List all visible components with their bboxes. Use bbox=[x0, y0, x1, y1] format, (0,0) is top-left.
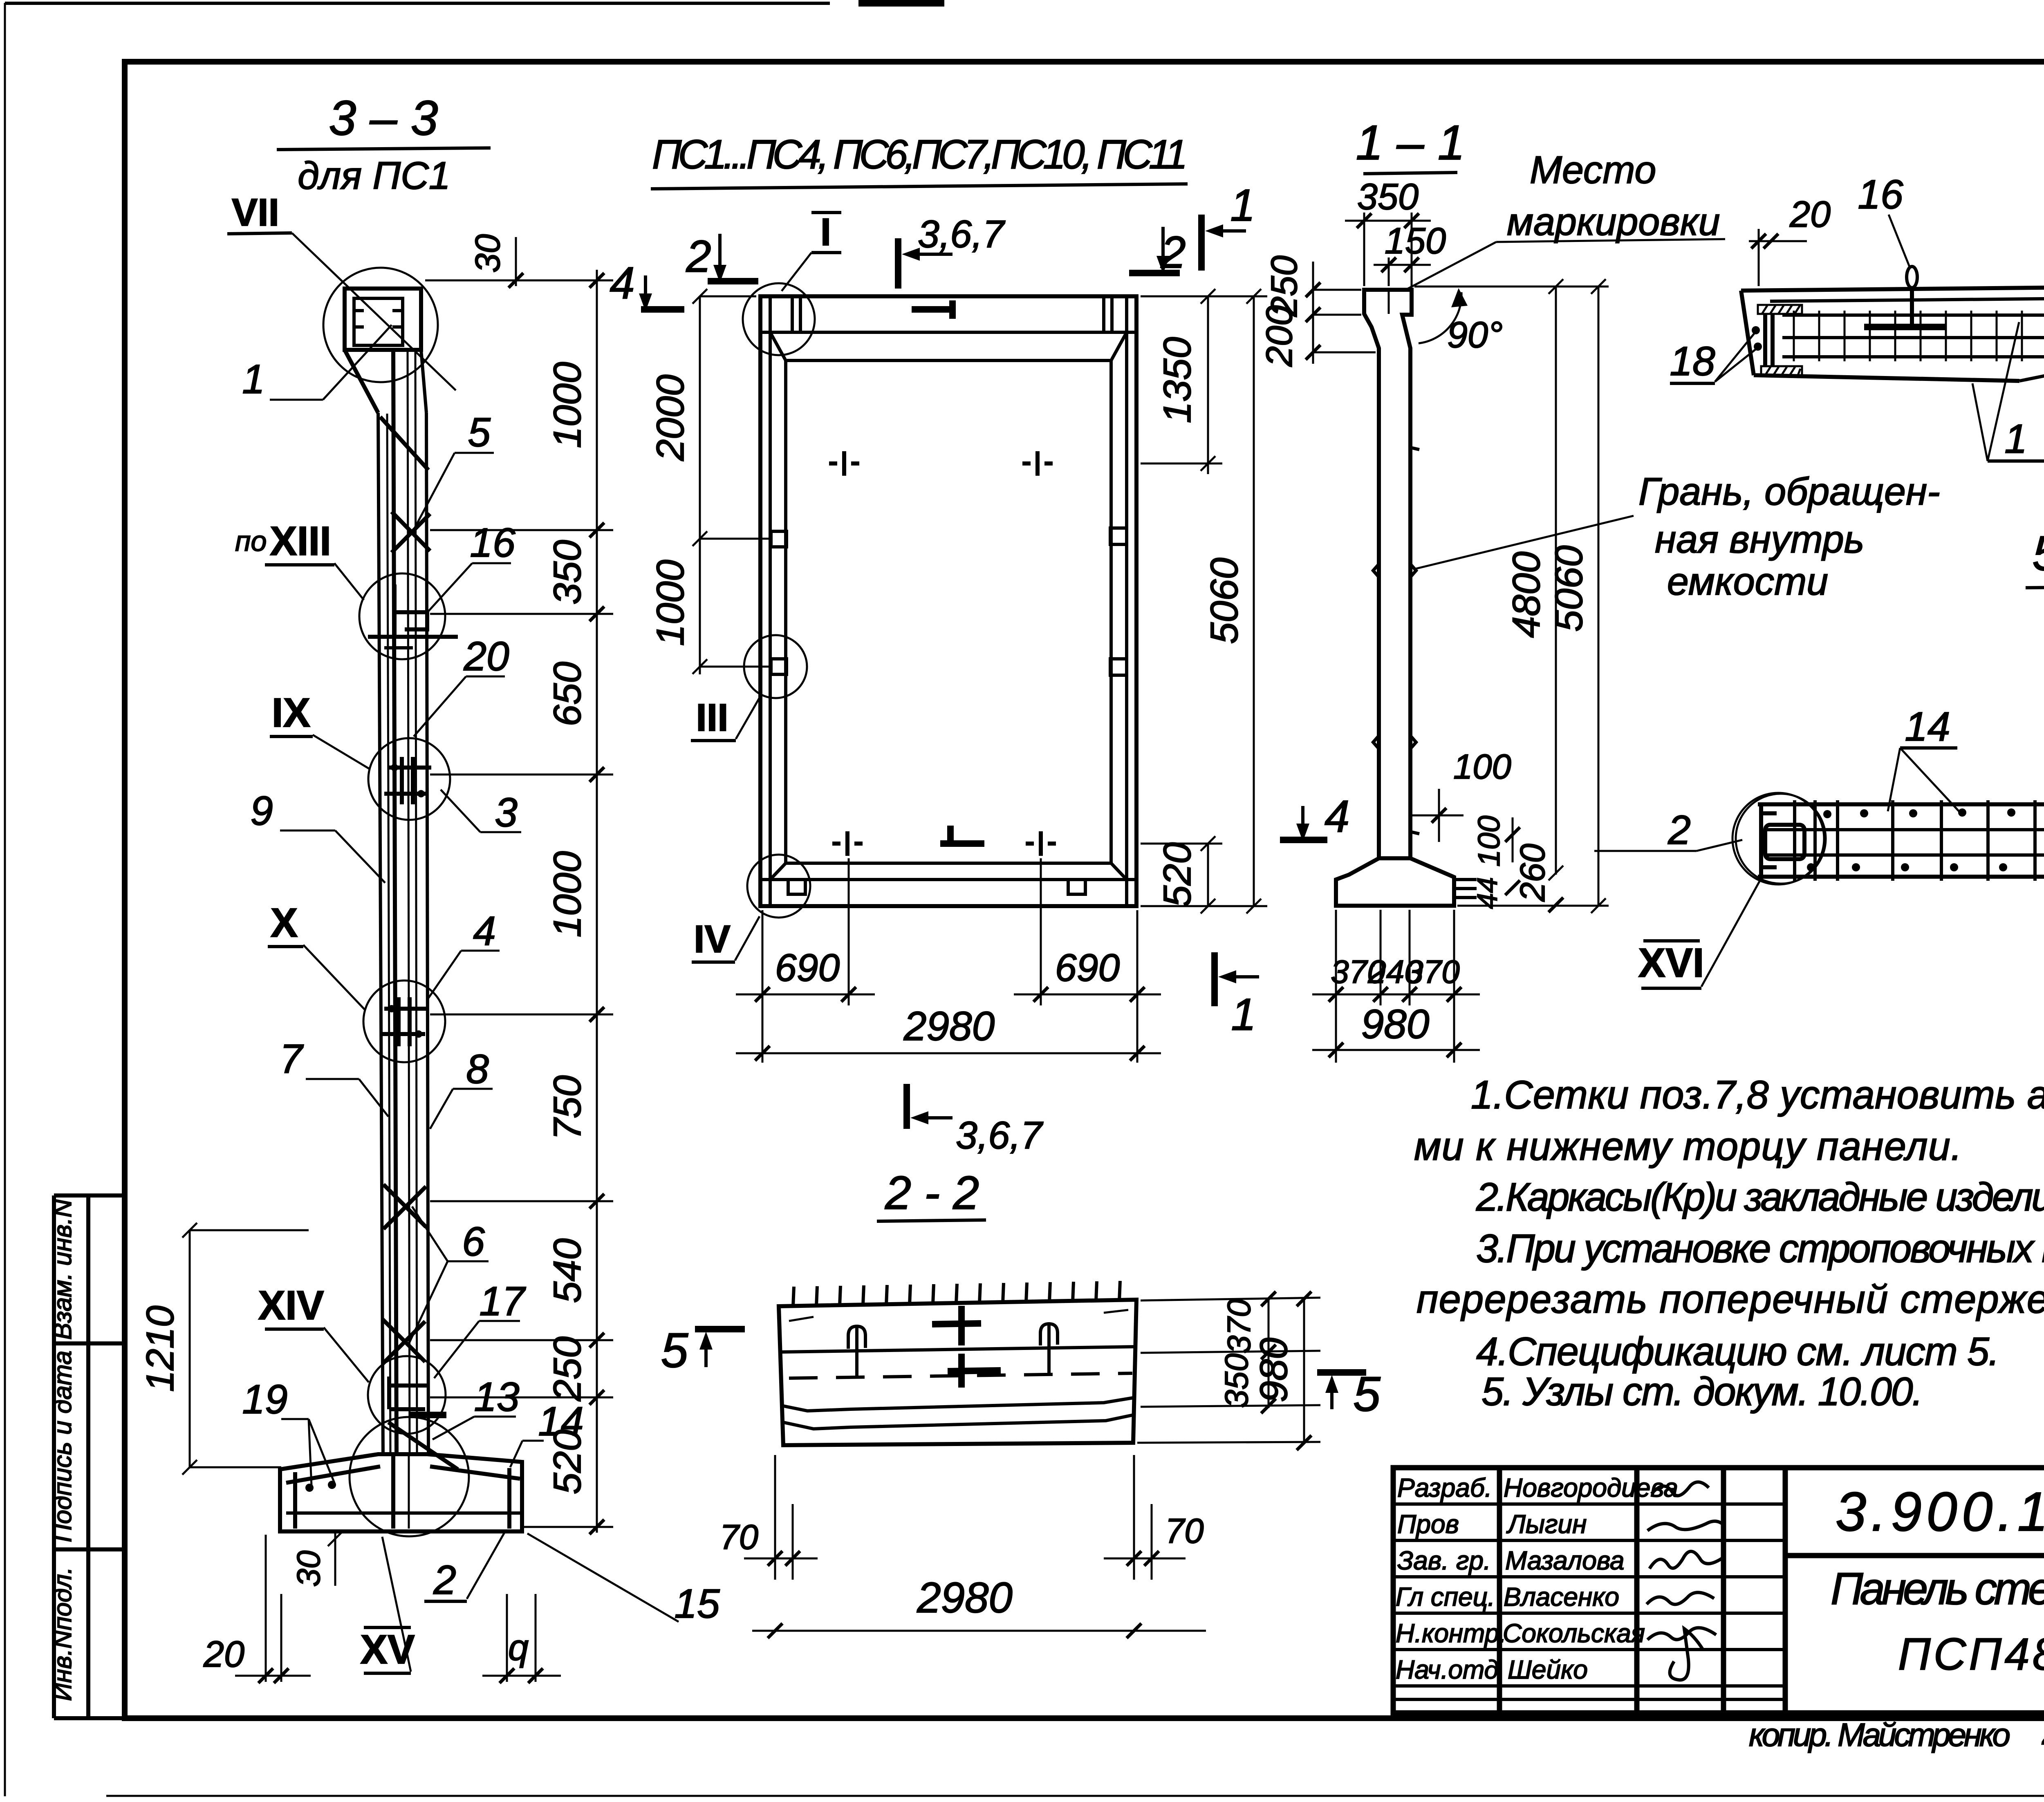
svg-text:1350: 1350 bbox=[1156, 337, 1199, 423]
label III bbox=[691, 695, 761, 741]
svg-text:Власенко: Власенко bbox=[1504, 1582, 1619, 1612]
label 15 bottom bbox=[527, 1533, 720, 1627]
section mark 1 top right bbox=[1201, 180, 1255, 271]
svg-text:5060: 5060 bbox=[1203, 557, 1246, 644]
svg-text:20: 20 bbox=[463, 633, 509, 679]
svg-text:15: 15 bbox=[674, 1581, 720, 1627]
plan dim 2980 bbox=[736, 1003, 1161, 1061]
label грань обращенная bbox=[1415, 470, 1940, 603]
svg-text:520: 520 bbox=[546, 1430, 589, 1495]
title block name bbox=[1831, 1564, 2044, 1679]
svg-text:1: 1 bbox=[1231, 989, 1256, 1040]
svg-text:5: 5 bbox=[661, 1323, 689, 1378]
section mark 1 bottom right bbox=[1215, 952, 1259, 1040]
plan wall key left 1 bbox=[771, 531, 787, 547]
label 1 view44 bbox=[1972, 322, 2044, 462]
label 20 bbox=[414, 633, 509, 736]
svg-text:1000: 1000 bbox=[649, 560, 692, 646]
svg-text:260: 260 bbox=[1513, 844, 1552, 902]
svg-text:5060: 5060 bbox=[1547, 545, 1591, 632]
svg-text:350: 350 bbox=[1218, 1353, 1255, 1408]
section mark 2 top right bbox=[1129, 227, 1186, 278]
sheet bottom edge bbox=[106, 1795, 2044, 1797]
svg-text:90°: 90° bbox=[1447, 315, 1503, 356]
svg-text:ми к нижнему торцу панели.: ми к нижнему торцу панели. bbox=[1414, 1124, 1962, 1169]
label XIV bbox=[258, 1283, 369, 1382]
view 1-1 title bbox=[1356, 115, 1465, 174]
svg-text:6: 6 bbox=[462, 1219, 485, 1265]
svg-text:980: 980 bbox=[1252, 1338, 1295, 1403]
dim 350 bbox=[1345, 177, 1431, 286]
panel 2-2 loops bbox=[848, 1324, 1058, 1377]
section mark 5 left bbox=[661, 1323, 745, 1378]
dim 980 view22 bbox=[1137, 1292, 1320, 1450]
lifting loop 16 bbox=[1907, 266, 1917, 288]
dim 44 bbox=[1471, 877, 1520, 909]
panel 2-2 comb ticks bbox=[793, 1281, 1120, 1307]
svg-text:44: 44 bbox=[1471, 877, 1503, 909]
label 6 bbox=[408, 1207, 489, 1345]
label 19 bbox=[242, 1377, 334, 1486]
plan dim 690 left bbox=[736, 858, 875, 1063]
svg-text:Взам. инв.N: Взам. инв.N bbox=[49, 1199, 77, 1340]
column 1-1 notches bbox=[1373, 448, 1419, 834]
plan wall key right 1 bbox=[1110, 528, 1127, 544]
svg-text:2: 2 bbox=[1667, 807, 1691, 853]
dim 2980 view22 bbox=[752, 1574, 1206, 1638]
footing 3-3 bbox=[280, 1422, 522, 1531]
dim 30 footing bbox=[290, 1531, 343, 1587]
svg-text:XIV: XIV bbox=[258, 1283, 324, 1328]
plan cross bottom left bbox=[832, 831, 863, 856]
svg-text:520: 520 bbox=[1156, 842, 1199, 907]
column 3-3 body edges bbox=[378, 351, 428, 1456]
svg-text:2: 2 bbox=[433, 1557, 456, 1603]
svg-text:1000: 1000 bbox=[546, 362, 589, 448]
angle 90 bbox=[1419, 288, 1503, 356]
plan view title bbox=[651, 132, 1188, 189]
label по XIII bbox=[235, 518, 364, 600]
plan dim 2000 bbox=[649, 289, 769, 674]
plan dim 690 right bbox=[1014, 858, 1161, 1063]
label 16 bbox=[1858, 172, 1910, 268]
label 1 bbox=[242, 325, 392, 402]
svg-text:30: 30 bbox=[290, 1551, 327, 1587]
dim 260 bbox=[1513, 844, 1563, 912]
svg-text:Панель стеновая: Панель стеновая bbox=[1831, 1564, 2044, 1614]
svg-text:Сокольская: Сокольская bbox=[1503, 1618, 1645, 1648]
column 3-3 X brace 2 bbox=[383, 1184, 426, 1229]
plan detail circle I bbox=[743, 283, 815, 355]
label 5 bbox=[413, 410, 494, 531]
plan wall key bottom right bbox=[1068, 880, 1085, 894]
column 3-3 X brace 3 bbox=[383, 1319, 425, 1364]
svg-text:1: 1 bbox=[1230, 180, 1255, 231]
svg-text:Инв.Nподл.: Инв.Nподл. bbox=[49, 1567, 77, 1701]
section mark 2 top left bbox=[686, 231, 758, 283]
section mark 4 top bbox=[610, 258, 684, 311]
plan anchor mark top center bbox=[912, 300, 953, 319]
column 3-3 X brace 1 bbox=[392, 512, 430, 553]
panel 4-4 end dots left bbox=[1752, 326, 1762, 351]
svg-text:150: 150 bbox=[1385, 221, 1446, 262]
svg-text:2.Каркасы(Кр)и закладные издел: 2.Каркасы(Кр)и закладные изделия(МН)прив… bbox=[1476, 1175, 2044, 1219]
label 4 bbox=[428, 908, 500, 998]
dim 20 bbox=[1749, 194, 1831, 286]
svg-text:Пров: Пров bbox=[1397, 1509, 1459, 1539]
svg-text:70: 70 bbox=[719, 1518, 758, 1557]
svg-text:2000: 2000 bbox=[649, 374, 692, 461]
dim 30 top bbox=[468, 234, 523, 288]
label 9 bbox=[250, 788, 385, 883]
svg-text:I: I bbox=[820, 210, 831, 254]
title block names bbox=[1503, 1473, 1678, 1684]
plan detail circle IV bbox=[747, 855, 810, 918]
dim 370 350 right bbox=[1141, 1292, 1320, 1413]
dim q bottom bbox=[482, 1594, 561, 1683]
label 13 bbox=[433, 1374, 520, 1439]
svg-text:XVI: XVI bbox=[1638, 940, 1704, 986]
svg-text:Место: Место bbox=[1530, 148, 1656, 192]
label 2 bottom bbox=[424, 1532, 505, 1603]
svg-text:3: 3 bbox=[495, 790, 518, 835]
svg-text:5 – 5: 5 – 5 bbox=[2033, 526, 2044, 581]
view 5-5 title bbox=[2026, 526, 2044, 588]
svg-text:Зав. гр.: Зав. гр. bbox=[1397, 1546, 1491, 1575]
label XVI bbox=[1638, 875, 1763, 988]
svg-text:20: 20 bbox=[1789, 194, 1831, 235]
detail circle XV bbox=[350, 1417, 469, 1536]
svg-text:Н.контр.: Н.контр. bbox=[1396, 1618, 1506, 1648]
svg-text:17: 17 bbox=[479, 1278, 526, 1324]
svg-text:Нач.отд: Нач.отд bbox=[1396, 1655, 1499, 1684]
plan dim 1350 bbox=[1141, 289, 1222, 474]
svg-text:емкости: емкости bbox=[1667, 560, 1828, 603]
title block job titles bbox=[1396, 1473, 1506, 1684]
svg-text:690: 690 bbox=[775, 946, 840, 989]
dim 5060 right bbox=[1457, 279, 1609, 913]
svg-text:350: 350 bbox=[546, 540, 589, 605]
dim 4800 bbox=[1414, 279, 1609, 880]
dim 370 240 370 bbox=[1312, 910, 1480, 1063]
svg-text:18: 18 bbox=[1670, 338, 1715, 384]
svg-text:1.Сетки поз.7,8 установить анк: 1.Сетки поз.7,8 установить анкерующими с… bbox=[1471, 1072, 2044, 1117]
svg-text:2980: 2980 bbox=[917, 1574, 1013, 1622]
svg-text:24399-01: 24399-01 bbox=[2042, 1706, 2044, 1754]
svg-text:Гл спец.: Гл спец. bbox=[1396, 1582, 1495, 1612]
panel 4-4 end plates hatched bbox=[1758, 305, 1802, 375]
svg-text:20: 20 bbox=[203, 1634, 244, 1675]
panel 2-2 outline bbox=[779, 1300, 1136, 1445]
svg-text:19: 19 bbox=[242, 1377, 287, 1422]
panel 2-2 anchor marks bbox=[932, 1306, 1001, 1388]
svg-text:1210: 1210 bbox=[139, 1305, 182, 1392]
sheet top edge mark bbox=[858, 0, 944, 7]
title block outer bbox=[1393, 1468, 2044, 1713]
sheet left edge bbox=[4, 3, 6, 1796]
detail circle XVI bbox=[1736, 794, 1826, 884]
label 17 bbox=[434, 1278, 526, 1378]
svg-text:X: X bbox=[271, 900, 298, 946]
label IV bbox=[692, 916, 760, 962]
plan wall key bottom left bbox=[788, 880, 805, 894]
svg-text:2980: 2980 bbox=[903, 1003, 995, 1049]
column 3-3 brace diagonal bbox=[380, 417, 428, 470]
svg-text:ПС1...ПС4, ПС6,ПС7,ПС10, ПС11: ПС1...ПС4, ПС6,ПС7,ПС10, ПС11 bbox=[652, 132, 1188, 177]
plan dim 5060 bbox=[1141, 289, 1267, 913]
detail circle VII bbox=[323, 268, 438, 382]
svg-text:ная внутрь: ная внутрь bbox=[1655, 518, 1864, 561]
svg-text:Лыгин: Лыгин bbox=[1506, 1509, 1587, 1539]
panel 2-2 inner lines bbox=[780, 1310, 1135, 1429]
section mark 4 right bbox=[1280, 791, 1349, 842]
svg-text:маркировки: маркировки bbox=[1507, 200, 1720, 244]
left margin stamp boxes bbox=[54, 1195, 125, 1718]
label 14 view55 left bbox=[1888, 704, 1959, 811]
svg-text:III: III bbox=[696, 696, 728, 739]
svg-text:q: q bbox=[508, 1627, 529, 1668]
dim 100 upper bbox=[1410, 748, 1511, 842]
mesh 5-5 left bar bbox=[1758, 800, 2044, 881]
plan dim 520 bbox=[1141, 836, 1222, 913]
svg-text:7: 7 bbox=[280, 1036, 304, 1082]
plan cross top right bbox=[1022, 451, 1053, 476]
section mark 5 right bbox=[1317, 1367, 1381, 1421]
svg-text:Разраб.: Разраб. bbox=[1397, 1473, 1492, 1502]
svg-text:перерезать поперечный стерже: перерезать поперечный стержень сетки. bbox=[1416, 1277, 2044, 1321]
dim chain 3-3 right bbox=[425, 270, 613, 1534]
svg-text:XIII: XIII bbox=[270, 518, 331, 564]
column 1-1 outline bbox=[1364, 290, 1412, 858]
label XV bbox=[360, 1537, 415, 1673]
svg-text:ПСП48: ПСП48 bbox=[1898, 1629, 2044, 1679]
svg-text:9: 9 bbox=[250, 788, 273, 834]
svg-text:4800: 4800 bbox=[1505, 551, 1548, 638]
mesh 4-4 bbox=[1782, 287, 2044, 361]
view 2-2 title bbox=[877, 1167, 986, 1221]
dim 250 200 left bbox=[1259, 255, 1376, 367]
svg-text:копир. Майстренко: копир. Майстренко bbox=[1749, 1717, 2010, 1753]
view 3-3 title bbox=[277, 91, 491, 197]
label место маркировки bbox=[1403, 148, 1725, 291]
svg-text:3 – 3: 3 – 3 bbox=[329, 91, 438, 146]
plan wall lines bbox=[760, 296, 1136, 906]
dim 100 lower bbox=[1472, 815, 1520, 866]
svg-text:2: 2 bbox=[686, 231, 711, 282]
svg-text:для ПС1: для ПС1 bbox=[298, 154, 450, 197]
svg-text:16: 16 bbox=[1858, 172, 1903, 217]
dim 150 bbox=[1374, 221, 1446, 286]
svg-text:Шейко: Шейко bbox=[1508, 1655, 1588, 1684]
svg-text:2 - 2: 2 - 2 bbox=[885, 1167, 979, 1219]
svg-text:5: 5 bbox=[468, 410, 491, 455]
plan dim 1000 bbox=[649, 560, 769, 674]
label 14 bbox=[510, 1399, 584, 1467]
label VII bbox=[227, 191, 456, 390]
plan anchor mark bottom center bbox=[940, 826, 984, 844]
svg-text:Новгородиева: Новгородиева bbox=[1504, 1473, 1678, 1502]
svg-text:1000: 1000 bbox=[546, 851, 589, 938]
svg-text:Подпись и дата: Подпись и дата bbox=[49, 1351, 77, 1542]
svg-text:540: 540 bbox=[546, 1238, 589, 1303]
title block signatures bbox=[1647, 1482, 1723, 1680]
dim 980 bbox=[1312, 1001, 1480, 1057]
title block row lines bbox=[1393, 1504, 2044, 1699]
svg-text:3.При установке строповочных п: 3.При установке строповочных петель допу… bbox=[1476, 1226, 2044, 1271]
detail circle XIII bbox=[359, 573, 458, 659]
svg-text:690: 690 bbox=[1055, 946, 1120, 989]
plan wall key right 2 bbox=[1110, 659, 1127, 675]
svg-text:14: 14 bbox=[1905, 704, 1950, 750]
plan detail circle III bbox=[744, 635, 807, 698]
svg-text:1: 1 bbox=[242, 356, 265, 402]
dim 20 bottom bbox=[203, 1535, 311, 1683]
column 3-3 cap bbox=[345, 289, 426, 413]
dim 1210 left bbox=[139, 1223, 309, 1475]
label 8 bbox=[430, 1046, 493, 1129]
svg-text:70: 70 bbox=[1165, 1512, 1204, 1551]
detail circle IX bbox=[368, 738, 450, 820]
plan wall key left 2 bbox=[771, 659, 787, 674]
dim 70 left view22 bbox=[719, 1455, 818, 1580]
detail circle X bbox=[363, 980, 445, 1062]
label X bbox=[268, 900, 365, 1010]
svg-text:3,6,7: 3,6,7 bbox=[918, 213, 1005, 256]
svg-text:1 – 1: 1 – 1 bbox=[1356, 115, 1465, 170]
svg-text:4: 4 bbox=[1325, 791, 1349, 842]
svg-text:350: 350 bbox=[1357, 177, 1419, 217]
svg-text:8: 8 bbox=[466, 1046, 489, 1092]
svg-text:750: 750 bbox=[546, 1075, 589, 1140]
notes text bbox=[1414, 1072, 2044, 1414]
detail circle XIV bbox=[368, 1356, 446, 1434]
plan outer rect bbox=[760, 296, 1136, 906]
svg-text:1: 1 bbox=[2004, 416, 2027, 462]
section mark 367 bottom bbox=[907, 1084, 1043, 1157]
label 18 left bbox=[1670, 333, 1757, 384]
svg-text:Мазалова: Мазалова bbox=[1505, 1546, 1624, 1575]
sheet top edge bbox=[5, 2, 830, 5]
label 3 bbox=[441, 790, 521, 835]
svg-text:100: 100 bbox=[1453, 748, 1511, 786]
svg-text:5. Узлы ст. докум. 10.00.: 5. Узлы ст. докум. 10.00. bbox=[1481, 1369, 1923, 1414]
dim 70 right view22 bbox=[1104, 1455, 1204, 1580]
plan cross bottom right bbox=[1026, 831, 1056, 856]
svg-text:370: 370 bbox=[1221, 1299, 1257, 1353]
label IX bbox=[270, 690, 370, 769]
svg-text:100: 100 bbox=[1472, 815, 1506, 866]
svg-text:30: 30 bbox=[468, 234, 507, 273]
detail circle 5-5 left bbox=[1732, 793, 1824, 884]
svg-text:4: 4 bbox=[610, 258, 634, 308]
section mark 367 top bbox=[898, 213, 1005, 289]
plan cross top left bbox=[829, 451, 859, 476]
svg-text:по: по bbox=[235, 525, 267, 557]
svg-text:IX: IX bbox=[272, 690, 310, 736]
svg-text:200: 200 bbox=[1259, 305, 1300, 367]
panel 4-4 outline bbox=[1741, 284, 2044, 381]
label I bbox=[782, 210, 841, 291]
svg-text:980: 980 bbox=[1361, 1001, 1430, 1047]
label 7 bbox=[280, 1036, 388, 1117]
svg-text:3,6,7: 3,6,7 bbox=[956, 1114, 1043, 1157]
svg-text:VII: VII bbox=[232, 191, 279, 234]
footing 1-1 bbox=[1336, 858, 1477, 906]
svg-text:4: 4 bbox=[473, 908, 496, 954]
label 2 bbox=[1594, 807, 1742, 853]
svg-text:650: 650 bbox=[546, 662, 589, 727]
svg-text:Грань, обращен-: Грань, обращен- bbox=[1638, 470, 1940, 513]
svg-text:IV: IV bbox=[694, 918, 731, 961]
svg-text:16: 16 bbox=[470, 520, 515, 566]
svg-text:370: 370 bbox=[1405, 954, 1459, 990]
svg-text:4.Спецификацию см. лист 5.: 4.Спецификацию см. лист 5. bbox=[1476, 1329, 1999, 1374]
svg-text:250: 250 bbox=[546, 1336, 589, 1402]
label 16 bbox=[426, 520, 515, 614]
